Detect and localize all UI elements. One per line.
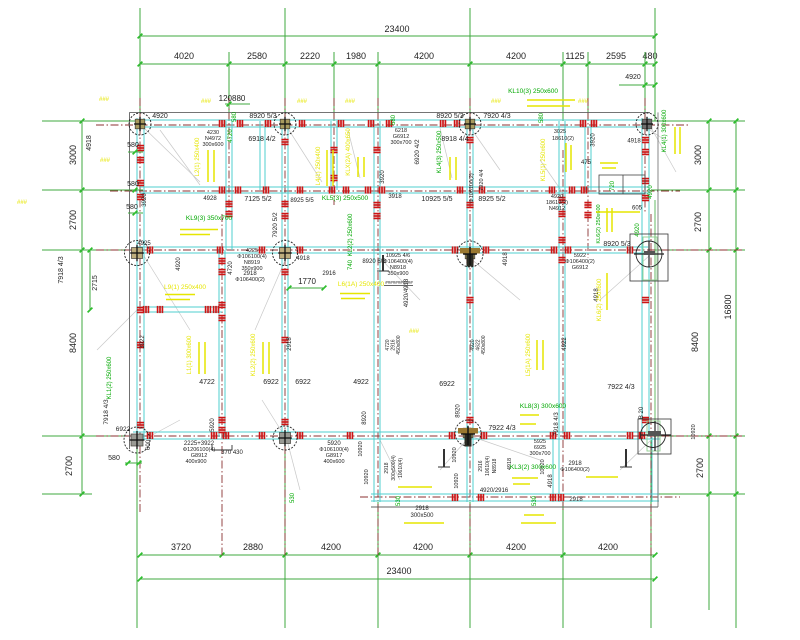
svg-text:4722: 4722: [199, 379, 215, 386]
leader lines: [97, 124, 676, 490]
svg-text:4720: 4720: [228, 129, 234, 143]
svg-text:G6912: G6912: [572, 265, 589, 271]
svg-text:6922: 6922: [116, 426, 131, 433]
svg-text:580: 580: [232, 111, 238, 122]
beam col B2a partition: [260, 121, 265, 190]
svg-text:3025: 3025: [554, 129, 566, 135]
svg-text:6922: 6922: [439, 381, 455, 388]
svg-text:3918: 3918: [388, 194, 402, 200]
center line col B lower: [221, 214, 223, 556]
left dimension line: [81, 121, 83, 494]
rebar bar symbol 1: [443, 449, 445, 467]
svg-text:1125: 1125: [565, 51, 584, 61]
svg-text:475: 475: [581, 160, 592, 166]
svg-text:2916: 2916: [322, 271, 336, 277]
svg-text:L2(1) 250x400: L2(1) 250x400: [195, 137, 201, 176]
svg-text:530: 530: [396, 495, 402, 506]
small dim 120880: [225, 103, 250, 105]
center line col I: [644, 98, 646, 214]
svg-text:2700: 2700: [68, 210, 78, 230]
svg-text:10920: 10920: [364, 469, 370, 484]
svg-text:300x500(4): 300x500(4): [391, 455, 397, 481]
svg-text:3920: 3920: [142, 193, 148, 207]
svg-text:6922: 6922: [295, 379, 311, 386]
svg-text:2700: 2700: [64, 456, 74, 476]
beam col B lower: [219, 250, 225, 437]
stirrup ticks sub-beam: [143, 306, 145, 313]
svg-text:L9(1) 250x400: L9(1) 250x400: [164, 284, 206, 291]
center line row 4: [96, 435, 742, 437]
beam KL8 row4: [133, 432, 660, 439]
svg-text:4918: 4918: [627, 139, 641, 145]
svg-text:7920 5/2: 7920 5/2: [272, 212, 279, 238]
svg-text:4920: 4920: [635, 223, 641, 237]
center line col E: [377, 98, 379, 556]
T fill column F4: [458, 428, 478, 434]
svg-text:L5(1A) 250x600: L5(1A) 250x600: [526, 333, 532, 376]
svg-text:2700: 2700: [695, 458, 705, 478]
svg-text:530: 530: [290, 492, 296, 503]
center line col I lower: [650, 214, 652, 556]
column C1: [274, 113, 296, 135]
top overall dimension line 23400: [140, 35, 655, 37]
svg-text:KL4(1) 300x600: KL4(1) 300x600: [662, 109, 668, 152]
svg-text:370 430: 370 430: [221, 450, 243, 456]
center line row 3: [96, 249, 742, 251]
svg-text:16800: 16800: [723, 294, 733, 319]
svg-text:8400: 8400: [690, 332, 700, 352]
svg-text:4920/2916: 4920/2916: [480, 488, 509, 494]
center line col D: [333, 98, 335, 205]
svg-text:8918 4/4: 8918 4/4: [441, 136, 468, 143]
svg-text:8925 5/5: 8925 5/5: [290, 198, 314, 204]
svg-text:300x600: 300x600: [202, 142, 223, 148]
center line col F: [469, 98, 471, 556]
svg-text:N4912: N4912: [549, 206, 565, 212]
center line row 2: [110, 190, 680, 192]
svg-text:7918 4/3: 7918 4/3: [103, 399, 110, 425]
svg-text:###: ###: [345, 99, 356, 105]
column A3: [125, 241, 150, 266]
svg-text:530: 530: [532, 495, 538, 506]
bottom grid extension lines: [136, 440, 138, 628]
center line col H: [587, 98, 589, 258]
column C3: [273, 241, 298, 266]
svg-text:4925: 4925: [137, 241, 151, 247]
svg-text:4200: 4200: [506, 542, 526, 552]
svg-text:7920 4/4: 7920 4/4: [479, 169, 485, 190]
svg-text:1980: 1980: [346, 51, 366, 61]
svg-text:4920/4918: 4920/4918: [404, 278, 410, 307]
svg-text:###: ###: [491, 99, 502, 105]
svg-text:120880: 120880: [219, 94, 246, 103]
beam col A left edge: [137, 118, 144, 440]
svg-text:KL1(2) 250x600: KL1(2) 250x600: [107, 356, 113, 399]
top segment dimension line: [140, 63, 655, 65]
small dim 580 left 2: [128, 189, 143, 191]
beam col G extension: [553, 437, 559, 502]
svg-text:L6(1A) 250x400: L6(1A) 250x400: [338, 281, 385, 288]
svg-text:2918: 2918: [569, 497, 583, 503]
stirrup ticks row2: [219, 186, 221, 193]
stirrup ticks row1: [219, 120, 221, 127]
svg-text:4200: 4200: [414, 51, 434, 61]
T fill column F3: [460, 248, 480, 254]
svg-text:1770: 1770: [298, 277, 316, 286]
svg-text:L1(1) 300x600: L1(1) 300x600: [187, 335, 193, 374]
center line col C: [284, 98, 286, 556]
svg-text:605: 605: [632, 206, 643, 212]
svg-text:8400: 8400: [68, 333, 78, 353]
beam col C: [282, 121, 288, 437]
svg-text:KL2(2) 250x600: KL2(2) 250x600: [251, 333, 257, 376]
svg-text:4918: 4918: [548, 474, 554, 488]
svg-text:450x800: 450x800: [481, 335, 487, 354]
beam extension bottom: [371, 494, 659, 501]
svg-text:2880: 2880: [243, 542, 263, 552]
svg-text:4922: 4922: [562, 337, 568, 351]
wall outline right: [657, 112, 659, 507]
svg-text:8925 5/2: 8925 5/2: [478, 196, 505, 203]
svg-text:2918: 2918: [384, 462, 390, 473]
center line col B upper: [228, 98, 230, 214]
svg-text:10920: 10920: [454, 473, 460, 488]
svg-text:2700: 2700: [693, 212, 703, 232]
svg-text:600: 600: [146, 439, 152, 450]
svg-text:4200: 4200: [506, 51, 526, 61]
column F3 (T): [457, 241, 483, 267]
beam KL10 top row1: [136, 120, 650, 127]
svg-text:580: 580: [108, 455, 120, 462]
stirrup ticks vertical beams: [137, 145, 144, 147]
stirrup ticks row3: [147, 246, 149, 253]
svg-text:3000: 3000: [68, 145, 78, 165]
svg-text:###: ###: [297, 99, 308, 105]
stair opening outline: [599, 175, 645, 194]
svg-text:8920 5/3: 8920 5/3: [436, 113, 463, 120]
sub-beam L9: [137, 307, 222, 312]
svg-text:8920 5/3: 8920 5/3: [249, 113, 276, 120]
svg-text:4200: 4200: [598, 542, 618, 552]
svg-text:400x900: 400x900: [185, 459, 206, 465]
svg-text:KL5(1) 250x600: KL5(1) 250x600: [541, 138, 547, 181]
beam col G: [559, 121, 565, 437]
left row extension lines: [42, 120, 137, 122]
svg-text:Φ106400(2): Φ106400(2): [560, 467, 590, 473]
column F4 (T): [455, 420, 481, 446]
hanger bracket row4: [212, 445, 232, 450]
svg-text:2715: 2715: [92, 275, 99, 291]
svg-text:300x700: 300x700: [529, 451, 550, 457]
svg-text:4200: 4200: [413, 542, 433, 552]
beam KL5 row2: [140, 187, 648, 193]
small dim 2715: [89, 250, 91, 310]
bottom dimension line 1: [140, 554, 655, 556]
small dim 580 bottom-left: [125, 462, 142, 464]
center line col G: [562, 150, 564, 512]
svg-text:7920 4/3: 7920 4/3: [483, 113, 510, 120]
svg-text:KL4(3) 250x500: KL4(3) 250x500: [437, 130, 443, 173]
top grid extension lines: [139, 8, 141, 121]
svg-text:4920: 4920: [176, 257, 182, 271]
column A1: [129, 113, 151, 135]
wall outline left: [129, 112, 131, 449]
svg-text:3920: 3920: [591, 133, 597, 147]
svg-text:10610(4): 10610(4): [398, 458, 404, 478]
svg-text:8920 5/3: 8920 5/3: [603, 241, 630, 248]
slab edge line extension: [371, 506, 658, 508]
svg-text:KL6(2) 250x600: KL6(2) 250x600: [597, 278, 603, 321]
svg-text:7918 4/3: 7918 4/3: [554, 412, 560, 436]
beam col B upper: [226, 121, 232, 250]
svg-text:Φ106100(2): Φ106100(2): [469, 173, 475, 203]
stirrup ticks extension bottom: [452, 494, 454, 501]
svg-text:450x800: 450x800: [396, 335, 402, 354]
svg-text:6920 4/2: 6920 4/2: [414, 139, 421, 165]
small dim 580 top-left: [128, 151, 143, 153]
right dimension lines: [708, 121, 710, 610]
svg-text:4920: 4920: [625, 74, 641, 81]
grid J segment: [654, 200, 656, 437]
column C4: [273, 426, 297, 450]
beam col E: [374, 121, 380, 502]
svg-text:400x600: 400x600: [323, 459, 344, 465]
svg-text:2918: 2918: [415, 506, 429, 512]
svg-text:2220: 2220: [300, 51, 320, 61]
small dim 1770: [289, 287, 324, 289]
svg-text:18610(2): 18610(2): [552, 136, 574, 142]
bottom overall dimension line 23400: [140, 578, 655, 580]
svg-text:6922: 6922: [263, 379, 279, 386]
center line col A: [139, 98, 141, 512]
boxed column I4: [638, 419, 671, 454]
column F1: [459, 113, 481, 135]
svg-text:580: 580: [391, 114, 397, 125]
svg-text:7125 5/2: 7125 5/2: [244, 196, 271, 203]
micro annotation line: [384, 285, 413, 287]
svg-text:KL9(3) 350x700: KL9(3) 350x700: [186, 215, 233, 222]
column A4: [124, 427, 150, 453]
svg-text:4922: 4922: [353, 379, 369, 386]
column I1: [636, 113, 658, 135]
svg-text:4918: 4918: [86, 135, 93, 151]
svg-text:3000: 3000: [693, 145, 703, 165]
svg-text:B 20: B 20: [639, 406, 645, 419]
svg-text:3720: 3720: [171, 542, 191, 552]
svg-text:740: 740: [348, 259, 354, 270]
svg-text:L4(1) 250x400: L4(1) 250x400: [316, 146, 322, 185]
svg-text:3922: 3922: [140, 335, 146, 349]
svg-text:5920: 5920: [210, 418, 216, 432]
svg-text:Φ106400(2): Φ106400(2): [235, 277, 265, 283]
svg-text:10920: 10920: [358, 441, 364, 456]
svg-text:N8918: N8918: [492, 458, 498, 473]
center line row 5 extension: [360, 496, 680, 498]
beam KL7 row3: [136, 247, 648, 253]
beam col H: [585, 121, 591, 190]
rebar bar symbol 2: [625, 449, 627, 467]
svg-text:4928: 4928: [203, 196, 217, 202]
beam col D: [331, 121, 337, 190]
yellow attribute marks: [165, 100, 680, 523]
svg-text:2580: 2580: [247, 51, 267, 61]
svg-text:###: ###: [17, 200, 28, 206]
svg-text:10610(4): 10610(4): [485, 456, 491, 476]
svg-text:300x700: 300x700: [390, 140, 411, 146]
svg-text:10925 5/5: 10925 5/5: [421, 196, 452, 203]
svg-text:###: ###: [201, 99, 212, 105]
svg-text:KL6(2) 250x600: KL6(2) 250x600: [596, 204, 602, 243]
svg-text:###: ###: [578, 99, 589, 105]
svg-text:7922 4/3: 7922 4/3: [488, 425, 515, 432]
svg-text:580: 580: [126, 204, 138, 211]
beam col F: [467, 121, 473, 502]
svg-text:KL3(2) 300x600: KL3(2) 300x600: [510, 464, 557, 471]
svg-text:350x900: 350x900: [387, 271, 408, 277]
svg-text:10920: 10920: [452, 447, 458, 462]
small dim 580 left 3: [128, 212, 143, 214]
svg-text:2918: 2918: [287, 337, 293, 351]
svg-text:4720: 4720: [228, 261, 234, 275]
svg-text:3920: 3920: [380, 170, 386, 184]
svg-text:4200: 4200: [321, 542, 341, 552]
svg-text:23400: 23400: [384, 24, 409, 34]
svg-text:###: ###: [100, 158, 111, 164]
rebar bar symbol 3: [382, 255, 384, 271]
svg-text:KL5(3) 250x500: KL5(3) 250x500: [322, 195, 369, 202]
svg-text:580: 580: [539, 112, 545, 123]
svg-text:7918 4/3: 7918 4/3: [58, 256, 65, 283]
small dim 4920 top-right: [619, 84, 656, 86]
center line row 1: [96, 124, 690, 126]
beam extension right edge: [652, 437, 658, 502]
svg-text:4020: 4020: [174, 51, 194, 61]
svg-text:4920: 4920: [152, 113, 168, 120]
svg-text:KL10(3) 250x600: KL10(3) 250x600: [508, 88, 558, 95]
svg-text:KL8(3) 300x600: KL8(3) 300x600: [520, 403, 567, 410]
svg-text:580: 580: [127, 142, 139, 149]
svg-text:2595: 2595: [606, 51, 626, 61]
svg-text:300x500: 300x500: [410, 513, 434, 519]
svg-text:8920: 8920: [362, 411, 368, 425]
svg-text:4918: 4918: [503, 252, 509, 266]
beam col I right edge: [642, 118, 649, 437]
svg-text:7922 4/3: 7922 4/3: [607, 384, 634, 391]
svg-text:580: 580: [127, 181, 139, 188]
svg-text:10920: 10920: [691, 424, 697, 439]
wall outline top: [130, 111, 651, 113]
boxed column I3: [630, 234, 668, 281]
svg-text:KL2(2) 250x600: KL2(2) 250x600: [348, 213, 354, 256]
svg-text:###: ###: [99, 97, 110, 103]
svg-text:8920: 8920: [456, 404, 462, 418]
svg-text:6918 4/2: 6918 4/2: [248, 136, 275, 143]
svg-text:###: ###: [409, 329, 420, 335]
svg-text:2916: 2916: [478, 460, 484, 471]
svg-text:KLX(2A) 400x650: KLX(2A) 400x650: [346, 128, 352, 176]
svg-text:4920: 4920: [648, 185, 654, 199]
svg-text:720: 720: [610, 180, 616, 191]
stirrup ticks row4: [147, 432, 149, 439]
svg-text:23400: 23400: [386, 566, 411, 576]
svg-text:4918: 4918: [296, 256, 310, 262]
